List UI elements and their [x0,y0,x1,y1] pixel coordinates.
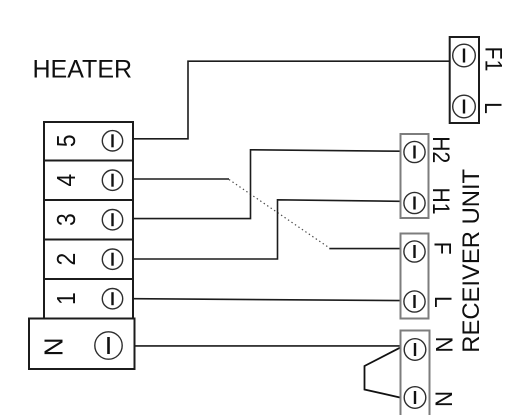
screw terminal N lower [404,387,426,409]
terminal 1 cell [44,279,133,319]
svg-text:1: 1 [52,292,81,305]
screw terminal N [95,332,122,359]
receiver terminal block H2 H1 [401,134,429,218]
screw terminal F [404,241,425,262]
receiver terminal block N N [401,331,430,415]
screw terminal 1 [102,289,122,309]
screw terminal 4 [102,170,122,190]
svg-text:F1: F1 [480,47,507,72]
svg-text:L: L [480,102,507,114]
receiver terminal block F1 L [450,37,479,123]
dashed link 4 to F [229,180,329,248]
receiver terminal block F L [401,234,429,319]
wire 5 to F1 [134,61,450,139]
jumper wire N to N [365,347,402,398]
wire N to N [135,345,401,347]
svg-text:5: 5 [52,134,81,147]
wire 3 to H2 [134,150,401,219]
wire 2 to H1 [134,200,401,259]
screw terminal L (fuse block) [453,95,476,118]
wire into F [329,248,400,250]
svg-text:4: 4 [52,174,81,187]
wire 1 to L [134,299,401,301]
svg-text:RECEIVER UNIT: RECEIVER UNIT [458,169,485,353]
screw terminal 5 [102,131,122,151]
screw terminal 3 [102,210,122,230]
svg-text:N: N [431,337,458,353]
svg-text:H2: H2 [428,136,455,163]
svg-text:N: N [39,337,69,356]
terminal N cell [29,319,135,370]
screw terminal H1 [404,192,425,213]
screw terminal 2 [102,249,122,269]
screw terminal H2 [404,141,425,162]
terminal 2 cell [44,240,133,280]
svg-text:F: F [429,242,456,255]
svg-text:L: L [430,296,457,308]
heater terminal block [29,122,135,369]
svg-text:H1: H1 [428,188,455,215]
terminal 5 cell [44,122,133,161]
screw terminal F1 [453,44,476,67]
terminal 4 cell [44,161,133,201]
wire 4 stub [134,178,229,180]
screw terminal L (receiver) [404,291,425,312]
svg-text:2: 2 [52,253,81,266]
svg-text:N: N [430,391,457,407]
terminal 3 cell [44,200,133,240]
svg-text:HEATER: HEATER [33,56,133,84]
screw terminal N upper [404,339,426,361]
svg-text:3: 3 [52,213,81,226]
